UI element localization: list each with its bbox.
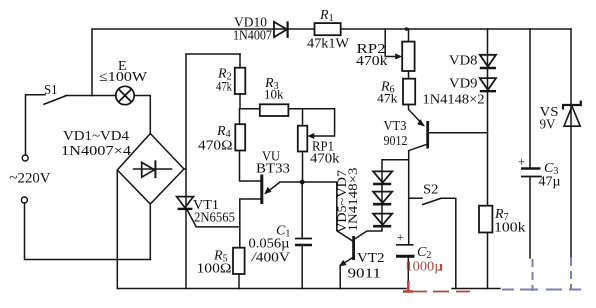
wire S1 left lead [26,95,46,155]
wire RP1 top lead [302,109,304,126]
wire node to VT2 base [302,182,352,241]
wire VS top lead [570,29,572,257]
wire top rail right segment [341,28,571,30]
bridge rectifier VD1~VD4 [117,134,184,205]
svg-text:+: + [397,230,404,245]
svg-text:BT33: BT33 [256,162,290,177]
wire bridge right corner to DC+ line [184,168,187,170]
potentiometer RP2 [395,42,414,71]
junction node top rail RP2 [405,27,409,31]
resistor R3 [260,104,289,116]
wire VT2 emitter to bottom rail [339,266,341,289]
AC terminal lower [21,197,27,203]
wire VT1 gate [187,210,239,227]
svg-text:~220V: ~220V [10,171,51,187]
wire lamp to bridge top [134,96,150,135]
wire RP2 to R6 [408,71,410,79]
wire VD8 top lead [487,29,489,206]
svg-text:1N4148×3: 1N4148×3 [345,168,360,232]
red artifact bottom dashes [413,291,470,293]
wire C1 bottom lead [301,246,303,289]
wire S1 to lamp [66,95,117,97]
wire node to C1 [301,182,303,238]
wire R2 bottom to node [239,94,241,109]
capacitor C1 [295,239,312,246]
diode VD10 [274,21,288,38]
svg-text:2N6565: 2N6565 [194,211,235,226]
AC terminal upper [22,155,28,161]
svg-text:S2: S2 [423,183,439,198]
wire R5 bottom lead [238,274,240,289]
wire RP2 wiper branch [385,29,399,57]
capacitor C2 [396,245,415,256]
svg-text:47k: 47k [216,79,232,94]
wire R3 right to RP1 top tee [288,109,334,136]
wire AC source lower lead [25,203,151,260]
svg-text:VT3: VT3 [384,119,407,134]
svg-text:1N4007: 1N4007 [233,29,272,44]
transistor VT3 [417,119,429,148]
svg-text:47k1W: 47k1W [307,37,350,52]
wire R6 to VT3 emitter [409,105,424,126]
resistor R2 [235,68,246,94]
resistor R1 [315,23,341,35]
wire C3 top lead [529,29,531,167]
wire collector node down to C2 [408,198,410,244]
svg-text:47k: 47k [377,91,398,106]
svg-text:VT2: VT2 [357,251,385,266]
wire S2 left stub [409,197,422,199]
svg-text:S1: S1 [44,83,58,98]
wire node to R3 [240,108,260,110]
diode VD5 [373,171,392,184]
transistor VT2 [339,236,355,266]
wire bridge left corner to bottom rail [116,171,118,289]
lamp E [116,86,134,104]
wire C3 bottom lead [529,178,531,258]
wire R4 top lead [239,109,241,125]
diode VD9 [480,78,496,91]
svg-text:9011: 9011 [348,267,382,282]
wire R4 bottom to UJT b2 [240,151,261,182]
svg-text:100Ω: 100Ω [197,262,232,277]
svg-text:VD9: VD9 [449,77,478,92]
junction node UJT emitter [300,180,305,185]
wire RP2 top drop [408,29,410,42]
resistor R4 [235,124,245,150]
svg-text:VD1~VD4: VD1~VD4 [63,129,129,144]
svg-text:470k: 470k [310,152,340,167]
svg-text:≤100W: ≤100W [99,70,148,85]
wire VT3 base to VD9 line [429,132,487,134]
diode VD8 [480,55,496,68]
wire UJT b1 to R5 [240,199,261,248]
svg-text:9012: 9012 [384,134,408,149]
switch S1 [43,96,66,105]
svg-text:47µ: 47µ [539,175,561,190]
svg-text:10k: 10k [264,87,284,102]
svg-text:1N4148×2: 1N4148×2 [423,93,485,108]
wire S2 right lead [441,198,456,288]
svg-text:VD8: VD8 [449,54,478,69]
wire bottom rail right [452,288,500,290]
resistor R5 [233,248,245,274]
wire diode chain top branch [355,160,409,239]
svg-text:100k: 100k [494,221,526,236]
svg-text:/400V: /400V [250,251,290,266]
zener diode VS [563,101,581,127]
wire VT3 collector drop [409,144,427,198]
wire R7 bottom lead [487,233,489,289]
blue artifact C3 lead dashes [502,258,581,291]
svg-text:470Ω: 470Ω [198,139,233,154]
red artifact brackets around 1000u [408,262,442,270]
wire DC+ vertical x=186 upper [186,54,240,289]
svg-text:470k: 470k [356,54,388,69]
diode VD7 [373,214,392,227]
svg-text:1N4007×4: 1N4007×4 [61,144,131,159]
diode VD6 [373,192,392,205]
wire top rail left segment [92,29,315,96]
svg-text:0.056µ: 0.056µ [249,237,290,252]
wire UJT emitter to node [280,181,302,183]
svg-text:+: + [518,154,525,169]
capacitor C3 [521,169,542,177]
wire C2 bottom lead [407,258,409,282]
wire R2 top lead [239,54,241,68]
svg-text:1000µ: 1000µ [406,260,443,275]
resistor R6 [403,79,415,105]
thyristor VT1 [177,197,194,209]
wire RP1 bottom to emitter node [302,152,304,183]
wire bottom rail left [117,288,406,290]
red artifact C2 lead [403,281,413,293]
svg-text:9V: 9V [540,118,556,133]
potentiometer RP1 [298,126,315,152]
switch S2 [422,198,441,204]
unijunction transistor VU [260,175,280,205]
resistor R7 [479,206,492,233]
